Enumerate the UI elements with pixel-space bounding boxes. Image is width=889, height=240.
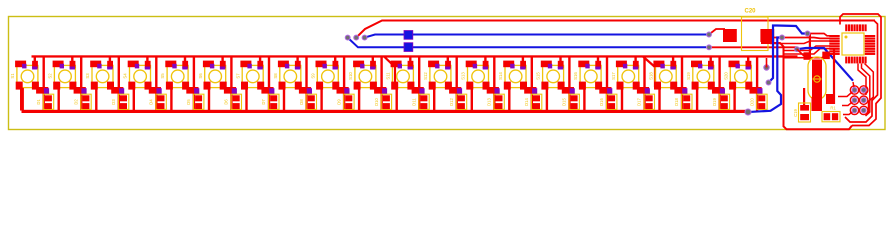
svg-text:S13: S13 [461, 72, 466, 80]
wire: pad trace S4 to via [149, 87, 162, 94]
wire: vertical trace below S5 [170, 88, 172, 111]
diode D5 [186, 94, 204, 109]
wire: column stub S12 [447, 57, 449, 63]
svg-text:D20: D20 [749, 97, 754, 105]
wire: pad trace S1 to via [36, 87, 49, 94]
switch S9 [310, 61, 339, 90]
diode D8 [299, 94, 317, 109]
wire: vertical x834 [833, 48, 835, 104]
wire: crystal pad to bottom bus [812, 97, 823, 111]
wire: vertical trace right of S16 [606, 57, 608, 112]
wire: cluster links [838, 90, 855, 115]
wire: vertical trace right of S19 [718, 57, 720, 112]
svg-text:S11: S11 [386, 72, 391, 80]
switch S5 [160, 61, 189, 90]
wire: vertical trace below S12 [433, 88, 435, 111]
svg-text:S8: S8 [273, 73, 278, 79]
svg-text:S17: S17 [611, 72, 616, 80]
wire: pad trace S6 to via [224, 87, 237, 94]
wire: column stub S14 [522, 57, 524, 63]
wire: pad trace S14 to via [524, 87, 537, 94]
via V7 [805, 31, 810, 36]
switch S4 [123, 61, 152, 90]
svg-text:D8: D8 [299, 99, 304, 105]
wire: crystal left vertical [803, 88, 805, 105]
wire: red fan f1 [770, 41, 830, 44]
switch S10 [348, 61, 377, 90]
wire: pad trace S8 to via [299, 87, 312, 94]
wire: vertical trace below S13 [471, 88, 473, 111]
switch S3 [85, 61, 114, 90]
wire: vertical trace right of S1 [43, 57, 45, 112]
svg-text:D12: D12 [449, 97, 454, 105]
switch S15 [536, 61, 565, 90]
svg-text:D10: D10 [374, 97, 379, 105]
wire: pad trace S10 to via [374, 87, 387, 94]
board outline [9, 17, 886, 130]
wire: vertical trace right of S3 [118, 57, 120, 112]
wire: column stub S3 [109, 57, 111, 63]
wire: vertical trace below S6 [208, 88, 210, 111]
switch S7 [235, 61, 264, 90]
svg-text:D11: D11 [411, 98, 416, 106]
diode D12 [449, 94, 467, 109]
via V9 [795, 47, 800, 52]
svg-text:S5: S5 [160, 73, 165, 79]
wire: vertical trace below S4 [133, 88, 135, 111]
wire: vertical trace right of S11 [418, 57, 420, 112]
via V14 (header) [860, 96, 868, 104]
wire: red fan f4 [784, 49, 831, 54]
switch S6 [198, 61, 227, 90]
wire: pad trace S13 to via [487, 87, 500, 94]
wire: vertical trace right of S6 [230, 57, 232, 112]
wire: vertical trace right of S13 [493, 57, 495, 112]
wire: C20 right pad south trace [761, 43, 852, 129]
wire: vertical trace right of S18 [681, 57, 683, 112]
svg-text:D9: D9 [336, 99, 341, 105]
wire: pad trace S11 to via [412, 87, 425, 94]
svg-text:D6: D6 [224, 99, 229, 105]
wire: pad trace S3 to via [111, 87, 124, 94]
wire: pad trace S5 to via [186, 87, 199, 94]
switch S8 [273, 61, 302, 90]
via V16 (header) [860, 106, 868, 114]
diode D17 [637, 94, 655, 109]
wire: pad trace S15 to via [562, 87, 575, 94]
wire: vertical trace right of S7 [268, 57, 270, 112]
svg-text:D15: D15 [562, 97, 567, 105]
wire: vertical trace below S19 [696, 88, 698, 111]
svg-text:D5: D5 [186, 99, 191, 105]
via V3 [362, 35, 367, 40]
switch S12 [423, 61, 452, 90]
switch S18 [648, 61, 677, 90]
wire: via V7 to crystal [809, 34, 811, 54]
diode D18 [674, 94, 692, 109]
wire: red net from via V7 [808, 34, 831, 36]
diode D15 [562, 94, 580, 109]
wire: vertical trace below S9 [320, 88, 322, 111]
wire: vertical trace right of S5 [193, 57, 195, 112]
switch S17 [611, 61, 640, 90]
via V5 [707, 45, 712, 50]
via V1 [345, 35, 350, 40]
wire: column stub S19 [710, 57, 712, 63]
svg-text:D13: D13 [487, 97, 492, 105]
wire: vertical trace right of S12 [456, 57, 458, 112]
diode D14 [524, 94, 542, 109]
svg-text:S9: S9 [310, 73, 315, 79]
svg-text:S10: S10 [348, 72, 353, 80]
wire: column stub S16 [597, 57, 599, 63]
switch S19 [686, 61, 715, 90]
diode D13 [487, 94, 505, 109]
wire: vertical trace below S1 [20, 88, 22, 111]
wire: column stub S1 [34, 57, 36, 63]
wire: column stub S15 [559, 57, 561, 63]
diode D16 [599, 94, 617, 109]
wire: column stub S2 [71, 57, 73, 63]
wire: vertical trace right of S20 [756, 57, 758, 112]
wire: vertical trace below S7 [245, 88, 247, 111]
wire: vertical trace right of S9 [343, 57, 345, 112]
switch S2 [48, 61, 77, 90]
svg-text:S3: S3 [85, 73, 90, 79]
diode D20 [749, 94, 767, 109]
wire: left column to bottom bus [22, 88, 24, 111]
wire: pad trace S18 to via [674, 87, 687, 94]
wire: column stub S5 [184, 57, 186, 63]
wire: column stub S20 [747, 57, 749, 63]
wire: column stub S6 [221, 57, 223, 63]
svg-text:R1: R1 [830, 106, 836, 111]
via V11 (header) [850, 86, 858, 94]
wire: crystal bottom trace [826, 94, 835, 104]
diode D10 [374, 94, 392, 109]
via V15 (header) [850, 106, 858, 114]
wire: vertical trace below S11 [396, 88, 398, 111]
wire: vertical trace right of S14 [531, 57, 533, 112]
wire: via V10b link [766, 58, 768, 68]
wire: column stub S17 [634, 57, 636, 63]
svg-text:S16: S16 [573, 72, 578, 80]
wire: pad trace S2 to via [74, 87, 87, 94]
wire: blue net 2 [348, 38, 706, 48]
wire: crystal top link [797, 49, 806, 57]
diode D7 [261, 94, 279, 109]
wire: blue vertical 2 [749, 38, 783, 113]
wire: pad trace S17 to via [637, 87, 650, 94]
wire: column stub S4 [146, 57, 148, 63]
wire: red net from via V6 [771, 37, 830, 40]
capacitor C20 [723, 9, 774, 51]
via V2 [354, 35, 359, 40]
switch S20 [723, 61, 752, 90]
svg-text:S1: S1 [10, 73, 15, 79]
diode D1 [36, 94, 54, 109]
crystal Q1 [808, 57, 826, 100]
wire: vertical trace right of S2 [80, 57, 82, 112]
via V6 [780, 35, 785, 40]
wire: pad trace S16 to via [599, 87, 612, 94]
diode D3 [111, 94, 129, 109]
wire: via4 to C20 [709, 29, 725, 35]
via V4 [707, 32, 712, 37]
svg-text:D18: D18 [674, 97, 679, 105]
svg-text:S7: S7 [235, 73, 240, 79]
wire: vertical trace below S15 [546, 88, 548, 111]
wire: vertical trace below S20 [733, 88, 735, 111]
wire: vertical trace below S2 [58, 88, 60, 111]
op-amp U1 (TQFP-32) [829, 24, 875, 63]
wire: vertical trace right of S8 [305, 57, 307, 112]
wire: column stub S11 [409, 57, 411, 63]
svg-text:D3: D3 [111, 99, 116, 105]
wire: right edge loop [845, 21, 878, 123]
svg-text:D2: D2 [73, 99, 78, 105]
svg-text:D17: D17 [637, 97, 642, 105]
capacitor C17 [804, 52, 812, 60]
via V8 [766, 80, 771, 85]
pad: jumper pad bottom [404, 43, 413, 52]
capacitor C18 [822, 52, 830, 60]
svg-text:D16: D16 [599, 97, 604, 105]
wire: bus jog 1 [384, 57, 395, 88]
via V12 (header) [860, 86, 868, 94]
wire: vertical trace right of S17 [643, 57, 645, 112]
svg-text:S20: S20 [723, 72, 728, 80]
svg-text:C20: C20 [744, 9, 756, 15]
svg-text:C19: C19 [793, 108, 798, 116]
switch S13 [461, 61, 490, 90]
wire: vertical trace below S18 [658, 88, 660, 111]
wire: blue vertical 1 [769, 26, 808, 83]
diode D6 [224, 94, 242, 109]
wire: red fan f5 [784, 54, 831, 58]
resistor R1 [822, 106, 840, 122]
wire: vertical trace below S10 [358, 88, 360, 111]
wire: vertical trace right of S15 [568, 57, 570, 112]
wire: red top corner trace [840, 14, 881, 126]
svg-text:S18: S18 [648, 72, 653, 80]
wire: vertical trace below S16 [583, 88, 585, 111]
switch S14 [498, 61, 527, 90]
wire: vertical trace below S14 [508, 88, 510, 111]
wire: pad trace S20 to via [750, 87, 763, 94]
svg-text:S19: S19 [686, 72, 691, 80]
wire: blue to header [797, 48, 853, 81]
switch S1 [10, 61, 39, 90]
wire: bus jog 2 [643, 57, 655, 88]
wire: blue net 1 [365, 35, 709, 38]
wire: top red net [356, 21, 875, 38]
wire: via5 east [709, 46, 797, 48]
diode D19 [712, 94, 730, 109]
via V10 on bottom bus [745, 109, 751, 115]
wire: pad trace S7 to via [261, 87, 274, 94]
via V10b end of row [764, 65, 769, 70]
svg-text:S2: S2 [48, 73, 53, 79]
wire: column stub S7 [259, 57, 261, 63]
wire: pad trace S9 to via [337, 87, 350, 94]
pad: jumper pad top [404, 31, 413, 40]
wire: pad trace S19 to via [712, 87, 725, 94]
wire: U1 bottom verticals [853, 64, 873, 117]
wire: column stub S10 [372, 57, 374, 63]
wire: vertical trace below S8 [283, 88, 285, 111]
wire: column stub S9 [334, 57, 336, 63]
diode D11 [411, 94, 429, 109]
wire: pad trace S12 to via [449, 87, 462, 94]
svg-text:D7: D7 [261, 99, 266, 105]
wire: bottom row bus [22, 110, 751, 113]
svg-text:S14: S14 [498, 72, 503, 80]
diode D4 [149, 94, 167, 109]
svg-text:S4: S4 [123, 73, 128, 79]
wire: column stub S18 [672, 57, 674, 63]
switch S16 [573, 61, 602, 90]
capacitor C19 [793, 103, 811, 122]
svg-text:S15: S15 [536, 72, 541, 80]
svg-text:D14: D14 [524, 97, 529, 105]
wire: vertical trace below S17 [621, 88, 623, 111]
diode D2 [73, 94, 91, 109]
wire: vertical trace below S3 [95, 88, 97, 111]
svg-text:D19: D19 [712, 97, 717, 105]
svg-text:S6: S6 [198, 73, 203, 79]
via V13 (header) [850, 96, 858, 104]
wire: vertical trace right of S4 [155, 57, 157, 112]
diode D9 [336, 94, 354, 109]
svg-text:D1: D1 [36, 99, 41, 105]
wire: column stub S8 [296, 57, 298, 63]
switch S11 [386, 61, 415, 90]
wire: vertical trace right of S10 [380, 57, 382, 112]
svg-text:D4: D4 [149, 99, 154, 105]
wire: red fan f3 [784, 46, 831, 51]
wire: column stub S13 [484, 57, 486, 63]
svg-text:S12: S12 [423, 72, 428, 80]
wire: switch row bus (top) [32, 55, 798, 57]
